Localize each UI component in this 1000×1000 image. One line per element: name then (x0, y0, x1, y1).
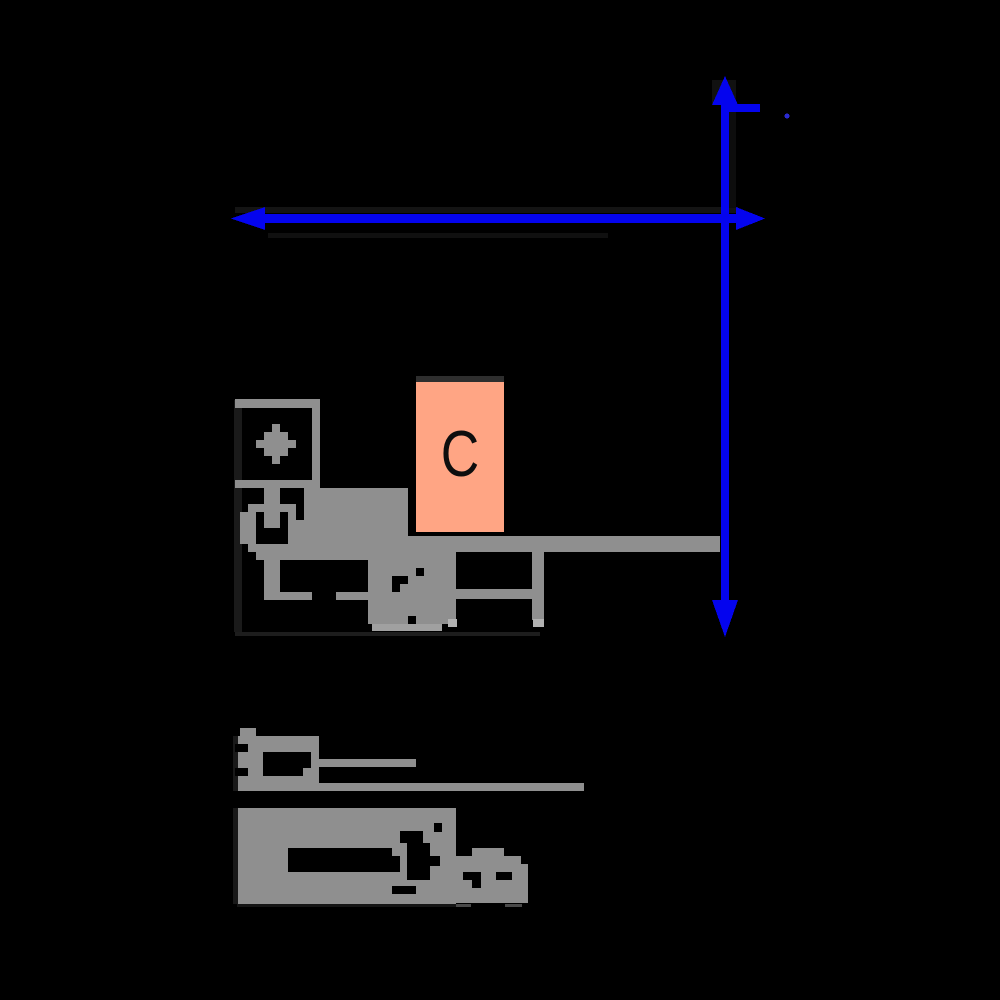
cabinet block under camera (408, 536, 456, 624)
machine2 slot (288, 848, 392, 872)
machine2 left dark edge (233, 808, 238, 904)
under-head dash 2 (454, 904, 471, 907)
monitor box bottom bar (235, 480, 320, 488)
camera C body (416, 382, 504, 532)
machine2 lower black bar (392, 886, 416, 894)
bed surface bar (408, 536, 720, 552)
figure head band (248, 504, 296, 512)
head top tab (472, 848, 504, 856)
machine2 body (237, 808, 456, 904)
figure face row eyes (240, 512, 296, 520)
figure foot (264, 592, 312, 600)
cabinet black spot 2 (392, 584, 400, 592)
under-head dash 1 (446, 904, 451, 907)
machine2 bottom faint line (237, 904, 456, 907)
faint ghost box near top arrowhead (712, 80, 736, 104)
head eye (496, 872, 512, 880)
cabinet black spot 1 (392, 576, 408, 584)
head mouth 2 (472, 880, 481, 888)
tick at top of vertical arrow (725, 104, 760, 112)
machine2 small square (434, 823, 442, 832)
faint artifact dash row below horizontal arrow (268, 233, 608, 238)
figure face row mouth-bottom (240, 536, 304, 544)
svg-text:C: C (441, 417, 479, 490)
figure lower chin row (256, 552, 304, 560)
figure leg (264, 560, 280, 592)
machine2 slot step (392, 856, 400, 872)
figure chin row (248, 544, 304, 552)
table shelf (440, 589, 544, 599)
machine1 lower rail (311, 783, 584, 791)
machine1 notch 1 (235, 744, 248, 752)
light strip under cabinet (372, 624, 442, 631)
cabinet black spot 3 (416, 568, 424, 576)
machine1 left dark edge (233, 736, 238, 791)
horizontal arrow shaft (258, 214, 738, 223)
horizontal arrow left head (231, 207, 265, 230)
monitor box right bar (312, 399, 320, 488)
camera C top edge (416, 376, 504, 382)
head upper (456, 856, 521, 864)
head mouth 1 (463, 872, 481, 880)
machine1 upper rail (319, 759, 416, 767)
head main (456, 864, 528, 903)
vertical arrow top head (712, 76, 738, 105)
vertical arrow shaft (721, 100, 729, 602)
faint artifact band above horizontal arrow (235, 207, 738, 213)
machine1 hole gray patch (303, 768, 311, 776)
table right leg (532, 552, 544, 620)
diamond icon in monitor (256, 424, 296, 464)
pedal bar (336, 592, 368, 600)
machine1 top tab (240, 728, 256, 736)
machine1 notch 2 (235, 768, 248, 776)
vertical arrow bottom head (712, 600, 738, 637)
small blue dot (785, 114, 790, 119)
machine2 vertical bar top (400, 831, 423, 843)
floor line middle scene (235, 632, 540, 636)
table foot left (448, 619, 457, 627)
figure neck (264, 488, 280, 504)
machine1 hole (263, 752, 311, 776)
machine2 vertical bar (407, 843, 430, 880)
table foot right (533, 619, 544, 627)
machine1 body (235, 736, 319, 791)
figure face row mouth-top (240, 520, 304, 528)
machine2 vertical bar step (430, 856, 440, 866)
horizontal arrow right head (736, 207, 765, 230)
cabinet black spot 4 (408, 616, 416, 624)
bed lower column (368, 560, 408, 624)
monitor box top bar (235, 399, 320, 408)
figure face row mouth-mid (240, 528, 304, 536)
bed mass (304, 488, 408, 560)
under-head dash 3 (505, 904, 522, 907)
monitor box left dark edge (234, 400, 242, 632)
faint ghost band right of vertical shaft (729, 112, 736, 208)
